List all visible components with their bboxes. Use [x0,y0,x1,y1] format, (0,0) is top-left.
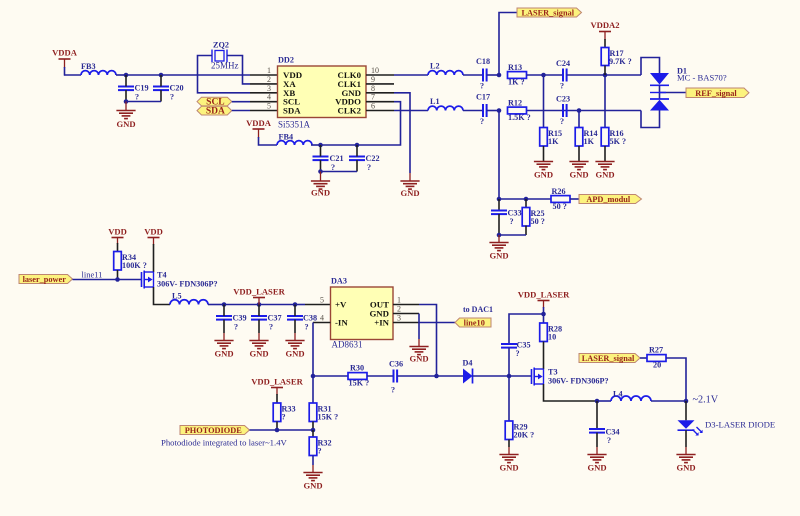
resistor R31 [309,403,317,422]
ground under R14 [569,162,588,180]
wire VDD down to T4 [153,244,155,272]
lead VDD to T4 drain [153,238,155,246]
resistor R27 [647,355,666,362]
svg-text:6: 6 [371,102,375,111]
wire port to R27 [640,357,647,359]
svg-text:R13: R13 [508,63,522,72]
wire FB3 to C19 node [116,74,126,76]
lead C33 bottom [498,214,500,235]
node C17/R12 junction [497,108,502,113]
svg-text:100K ?: 100K ? [122,261,147,270]
node C23 out junction [577,108,582,113]
lead VDD to R34 [117,238,119,245]
svg-text:10: 10 [371,66,379,75]
svg-text:20: 20 [653,360,661,369]
svg-text:2: 2 [397,305,401,314]
wire pin7 VDDO down to C22 node [357,102,401,145]
wire L2 to C18 [463,74,483,76]
svg-text:R30: R30 [350,364,364,373]
svg-text:AD8631: AD8631 [332,340,363,350]
svg-text:C19: C19 [135,84,149,93]
svg-text:C36: C36 [389,360,403,369]
svg-text:FB4: FB4 [279,133,294,142]
wire laser_power to T4 gate [73,279,142,281]
svg-text:C18: C18 [476,57,490,66]
ground under C19/C20 [116,111,135,130]
svg-text:20K ?: 20K ? [514,430,535,439]
wire SCL to pin4 [232,101,250,103]
svg-text:APD_modul: APD_modul [586,195,630,204]
ground under C34 [587,455,606,473]
node C19/row1 junction [124,73,129,78]
port LASER_signal (top) [517,8,582,18]
svg-text:~2.1V: ~2.1V [693,395,719,406]
svg-text:9.7K ?: 9.7K ? [609,57,632,66]
lead R34 bottom [117,270,119,280]
capacitor C36 [394,370,398,383]
stub D1 mid pin [650,92,666,94]
IC DD2 Si5351A body [278,66,367,118]
capacitor C38 [287,316,303,320]
svg-text:1: 1 [267,66,271,75]
power symbol VDDA2 [590,20,619,40]
wire pin10 to L2 [394,74,428,76]
resistor R25 [522,208,530,227]
capacitor C20 [153,87,169,91]
svg-text:C24: C24 [556,59,570,68]
lead R14 bottom [578,146,580,161]
lead R25 top [525,199,527,208]
port laser_power [19,275,73,285]
ground under R16 [595,162,614,180]
wire C21-C22 top [321,144,358,146]
svg-text:VDDA2: VDDA2 [590,20,619,30]
lead C37 top [258,305,260,317]
lead R31 bottom [312,422,314,431]
diode D1 bracket bottom [641,111,660,128]
node C18/R13/LASER_signal junction [497,73,502,78]
lead R32 bottom [312,456,314,466]
svg-text:GND: GND [249,349,268,359]
resistor R34 [114,252,122,271]
node C22 top [355,143,360,148]
stem ground C38 [294,333,296,340]
node R25 top [524,197,529,202]
node C35/R29/T3-gate junction [507,374,512,379]
stem ground R29 [508,447,510,454]
lead C19 top [125,75,127,87]
svg-text:306V- FDN306P?: 306V- FDN306P? [157,280,218,289]
pin 8 DD2 GND stub [366,92,394,94]
LED D3 laser diode [678,401,703,447]
svg-text:1K: 1K [584,137,595,146]
resistor R15 [540,128,548,147]
power symbol VDD (T4) [144,227,163,238]
svg-text:+V: +V [335,300,347,310]
inductor L4 [611,396,651,401]
svg-text:VDD: VDD [108,227,127,237]
power symbol VDDA (top-left) [52,48,78,69]
svg-text:50 ?: 50 ? [531,217,545,226]
resistor R28 [540,323,548,342]
svg-text:?: ? [170,93,174,102]
wire R30 to C36 [367,375,394,377]
svg-text:GND: GND [303,481,322,491]
wire T3 source down to L4 row [544,384,598,401]
wire -IN down to R30 node [312,323,314,377]
svg-text:3: 3 [267,84,271,93]
wire C17 to node [487,110,499,112]
port SCL [197,97,232,107]
svg-text:3: 3 [397,314,401,323]
capacitor C34 [589,429,605,433]
capacitor C24 [563,69,567,82]
capacitor C23 [563,104,567,117]
wire pin6 to L1 [394,110,428,112]
lead C38 top [294,305,296,317]
power symbol VDD_LASER (T3) [518,290,570,309]
svg-text:SDA: SDA [206,107,225,117]
svg-text:PHOTODIODE: PHOTODIODE [185,426,242,435]
port SDA [197,106,232,116]
capacitor C18 [483,69,487,82]
wire L1 to C17 [463,110,483,112]
node C21 bottom [318,169,323,174]
svg-text:to DAC1: to DAC1 [463,305,493,314]
capacitor C17 [483,104,487,117]
pin 6 DD2 CLK2 stub [366,110,394,112]
svg-text:line10: line10 [464,319,485,328]
wire D4 to T3 gate node [473,375,510,377]
wire pin8 to ground [394,93,410,173]
wire node to D1 bracket [605,74,641,76]
pin 9 DD2 CLK1 stub [366,83,394,85]
svg-text:VDD_LASER: VDD_LASER [233,287,285,297]
svg-text:?: ? [560,82,564,91]
inductor L5 [170,300,208,305]
stem ground C39 [223,333,225,340]
lead C39 bottom [223,320,225,333]
lead R29 bottom [508,440,510,448]
capacitor C33 [491,211,507,215]
pin 1 DA3 OUT stub [393,304,419,306]
wire C21-C22 bottom [321,171,358,173]
capacitor C37 [251,316,267,320]
svg-text:line11: line11 [82,270,103,280]
svg-text:?: ? [234,323,238,332]
transistor T3 MOSFET-P [532,368,544,386]
wire C18 to node [487,74,499,76]
svg-text:L1: L1 [430,97,440,106]
svg-text:T3: T3 [548,368,558,377]
pin 3 DD2 XB stub [250,92,278,94]
wire C19-C20 bottom [126,101,161,103]
svg-text:306V- FDN306P?: 306V- FDN306P? [548,377,609,386]
lead R15 bottom [543,146,545,161]
node -IN/R30 junction [311,374,316,379]
port REF_signal [686,88,749,98]
svg-text:?: ? [480,117,484,126]
capacitor C19 [118,87,134,91]
svg-text:GND: GND [409,354,428,364]
ground under LED D3 [676,455,695,473]
wire D1 mid node [659,85,661,99]
ground under C33/R25 [489,243,508,261]
pin names DD2 left [283,70,302,116]
lead R25 bottom [525,226,527,236]
svg-text:GND: GND [489,251,508,261]
wire VDD_LASER to R28 node [543,307,545,323]
svg-text:VDD: VDD [144,227,163,237]
lead C35 bottom [508,348,510,376]
svg-text:L2: L2 [430,62,440,71]
svg-text:GND: GND [595,170,614,180]
svg-text:Photodiode integrated to laser: Photodiode integrated to laser~1.4V [161,438,288,448]
lead C20 bottom [160,90,162,101]
wire R26 to port [570,198,579,200]
inductor L2 [428,71,463,75]
svg-text:C38: C38 [303,314,317,323]
ground under DD2 pin8 [400,181,419,198]
node LED junction [684,399,689,404]
resistor R26 [551,196,570,203]
svg-text:?: ? [318,446,322,455]
svg-text:VDDA: VDDA [246,118,272,128]
lead C19 bottom [125,90,127,101]
ferrite bead FB3 [81,71,116,75]
wire C24 to R17 node [567,74,605,76]
stem ground pin8 [409,173,411,181]
wire L5 to C39 node [208,304,224,306]
pin 7 DD2 VDDO stub [366,101,394,103]
stem ground C33 [498,235,500,242]
wire row1 to DD2 pin1 [161,74,250,76]
node C37 top [257,302,262,307]
wire R16 drop [604,75,606,127]
svg-text:T4: T4 [157,271,167,280]
stem ground DA3 [418,339,420,346]
capacitor C35 [501,344,517,348]
wire crystal right to XA [227,56,250,84]
wire C17 node down to APD row [498,111,500,200]
svg-text:VDD_LASER: VDD_LASER [251,377,303,387]
inductor L1 [428,106,463,110]
svg-text:2: 2 [267,75,271,84]
svg-text:GND: GND [499,463,518,473]
svg-text:5K ?: 5K ? [610,137,627,146]
svg-text:GND: GND [116,119,135,129]
lead C38 bottom [294,320,296,333]
svg-text:GND: GND [676,463,695,473]
wire T4 source down [154,287,171,305]
svg-text:?: ? [135,93,139,102]
ground under R15 [534,162,553,180]
svg-text:?: ? [305,323,309,332]
node R13 out junction [541,73,546,78]
pin 4 DD2 SCL stub [250,101,278,103]
wire row2 R12 to D1 bracket [527,110,642,112]
node R17/R16 junction [603,73,608,78]
svg-text:?: ? [510,217,514,226]
power symbol VDD_LASER (R33) [251,377,303,396]
svg-text:VDD_LASER: VDD_LASER [518,290,570,300]
lead C39 top [223,305,225,317]
resistor R12 [508,107,527,114]
svg-text:15K ?: 15K ? [349,378,370,387]
port APD_modul [579,195,642,205]
node C19 bottom junction [124,99,129,104]
svg-text:9: 9 [371,75,375,84]
wire crystal left to XB [198,56,251,93]
svg-text:C17: C17 [476,93,490,102]
svg-text:GND: GND [587,463,606,473]
svg-text:?: ? [480,82,484,91]
svg-text:GND: GND [214,349,233,359]
wire D1 mid to REF_signal [660,92,687,94]
svg-text:L4: L4 [613,390,623,399]
lead R32 top [312,430,314,437]
svg-text:SDA: SDA [283,106,301,116]
svg-text:C22: C22 [366,154,380,163]
svg-text:?: ? [282,412,286,421]
lead R16 bottom [604,146,606,161]
svg-text:GND: GND [400,188,419,198]
svg-text:7: 7 [371,93,375,102]
resistor R16 [601,128,609,147]
svg-text:DA3: DA3 [331,277,347,286]
svg-text:C39: C39 [233,314,247,323]
svg-text:MC - BAS70?: MC - BAS70? [677,73,727,83]
wire +IN to line10 port [419,322,455,324]
stem ground LED [685,447,687,454]
svg-text:50 ?: 50 ? [553,202,567,211]
svg-text:D3-LASER DIODE: D3-LASER DIODE [705,420,775,430]
svg-text:ZQ2: ZQ2 [213,41,229,50]
wire C39-C37 [224,304,259,306]
wire VDDA to FB4 [259,137,278,145]
wire pin2 GND down [418,314,420,340]
wire FB4 to C21 [311,144,321,146]
wire C36 to OUT node [397,375,436,377]
lead VDDA2 to R17 [604,39,606,48]
svg-text:1.5K ?: 1.5K ? [508,113,531,122]
pin 5 DA3 +V stub [305,304,331,306]
ferrite bead FB4 [277,141,312,145]
svg-text:8: 8 [371,84,375,93]
lead C34 top [596,401,598,429]
pin 1 DD2 VDD stub [250,74,278,76]
node R33 bottom [275,428,280,433]
wire SDA to pin5 [232,110,250,112]
node R34 bottom junction [115,277,120,282]
svg-text:4: 4 [320,314,324,323]
node C21 top [318,143,323,148]
lead R31 top [312,376,314,403]
pin 4 DA3 -IN stub [313,322,331,324]
wire node to D4 [437,375,464,377]
ground under C21/C22 [311,181,330,198]
pin numbers DA3 [320,296,401,323]
capacitor C39 [216,316,232,320]
wire C38 to DA3 pin5 [295,304,305,306]
lead C37 bottom [258,320,260,333]
diode D1 bracket top [641,58,660,76]
resistor R29 [505,421,513,440]
node C33 bottom [497,233,502,238]
ground under R32 [303,473,322,491]
lead C22 top [356,145,358,157]
lead C21 top [320,145,322,157]
lead R29 top [508,376,510,421]
wire PHOTODIODE to R31 [250,429,314,431]
crystal ZQ2 [212,50,227,63]
wire up to LASER_signal port [499,13,517,76]
lead R17 bottom [604,66,606,76]
svg-text:?: ? [516,349,520,358]
resistor R32 [309,437,317,456]
resistor R17 [601,48,609,66]
diode D4 [463,369,473,384]
pin 3 DA3 +IN stub [393,322,419,324]
svg-text:10: 10 [548,332,556,341]
wire OUT to R30 row [419,305,437,377]
svg-text:GND: GND [569,170,588,180]
resistor R30 [348,373,367,380]
resistor R14 [575,128,583,147]
wire APD row [499,198,551,200]
svg-text:GND: GND [285,349,304,359]
svg-text:?: ? [269,323,273,332]
stem ground C34 [596,447,598,454]
resistor R33 [273,403,281,422]
wire row1 left segment [64,74,81,76]
lead VDD-R34 dark [117,243,119,252]
svg-text:4: 4 [267,93,271,102]
lead C21 bottom [320,160,322,171]
svg-text:1: 1 [397,296,401,305]
svg-text:R12: R12 [508,98,522,107]
svg-text:C37: C37 [268,314,282,323]
pin 2 DA3 GND stub [393,313,419,315]
wire node to C35 [509,314,544,344]
wire node to C24 [544,74,564,76]
node OUT junction [434,374,439,379]
wire R13 to node [527,74,544,76]
lead VDD_LASER to R33 [276,394,278,403]
svg-text:laser_power: laser_power [23,275,67,284]
ground under C38 [285,341,304,359]
svg-text:FB3: FB3 [81,62,96,71]
svg-text:?: ? [391,386,395,395]
power symbol VDDA (FB4) [246,118,272,138]
port PHOTODIODE [180,426,250,436]
lead R33 bottom [276,422,278,431]
lead R28 bottom to T3 [543,342,545,370]
transistor T4 MOSFET-P [142,271,154,289]
svg-text:C23: C23 [556,95,570,104]
svg-text:+IN: +IN [374,318,389,328]
svg-text:?: ? [331,163,335,172]
pin 5 DD2 SDA stub [250,110,278,112]
pin numbers DD2 left [267,66,271,111]
svg-text:Si5351A: Si5351A [278,120,311,130]
power symbol VDD_LASER (C37) [233,287,285,305]
port LASER_signal (bottom) [579,354,640,364]
svg-text:D4: D4 [463,359,473,368]
svg-text:R26: R26 [552,187,566,196]
stem ground C37 [258,333,260,340]
pin names DA3 [335,300,390,328]
